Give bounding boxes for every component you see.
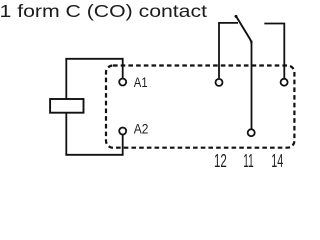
terminal 12 <box>216 79 223 86</box>
terminal 14 <box>281 79 288 86</box>
svg-text:A2: A2 <box>134 122 149 138</box>
wire: coil bottom horizontal <box>65 154 122 156</box>
wire: A1 lead <box>122 58 124 78</box>
svg-text:11: 11 <box>243 151 253 171</box>
relay outline (dashed case) <box>106 66 294 148</box>
svg-text:A1: A1 <box>134 75 148 91</box>
wire: pin 14 lead <box>264 24 284 79</box>
wire: coil top horizontal <box>65 58 122 60</box>
svg-text:14: 14 <box>271 151 283 171</box>
svg-text:12: 12 <box>214 151 227 171</box>
wire: pin 12 lead <box>219 23 238 78</box>
relay coil <box>50 99 83 113</box>
wire: coil left vertical <box>65 59 67 155</box>
wire: pin 11 lead <box>251 41 253 129</box>
terminal 11 <box>248 129 255 136</box>
terminal A2 <box>119 128 126 135</box>
blade tip dot <box>235 15 238 18</box>
wire: A2 lead <box>122 135 124 156</box>
contact blade (movable, pin 11) <box>236 16 252 44</box>
terminal A1 <box>119 79 126 86</box>
svg-text:1 form C (CO) contact: 1 form C (CO) contact <box>0 1 207 21</box>
